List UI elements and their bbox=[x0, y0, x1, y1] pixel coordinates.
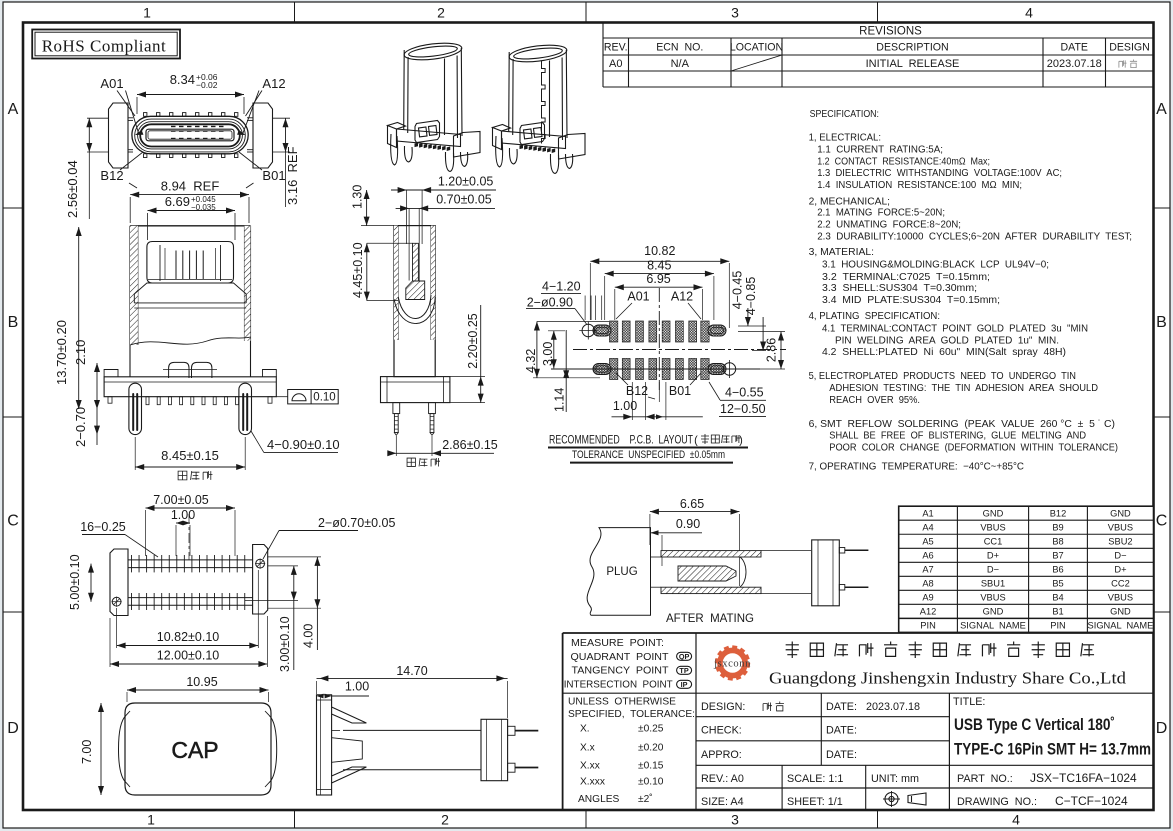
svg-text:1.00: 1.00 bbox=[171, 508, 195, 522]
svg-text:GND: GND bbox=[1110, 508, 1131, 518]
svg-text:REV.: A0: REV.: A0 bbox=[701, 773, 744, 785]
svg-text:CC2: CC2 bbox=[1111, 579, 1130, 589]
svg-text:B6: B6 bbox=[1052, 565, 1063, 575]
svg-text:16−0.25: 16−0.25 bbox=[80, 520, 126, 534]
svg-text:2: 2 bbox=[437, 5, 445, 21]
svg-text:4.00: 4.00 bbox=[302, 624, 316, 648]
svg-text:±2˚: ±2˚ bbox=[638, 793, 653, 805]
svg-text:A1: A1 bbox=[922, 508, 933, 518]
svg-text:3.00±0.10: 3.00±0.10 bbox=[278, 616, 292, 672]
svg-text:10.82±0.10: 10.82±0.10 bbox=[157, 630, 220, 644]
svg-text:2.56±0.04: 2.56±0.04 bbox=[65, 160, 80, 218]
svg-text:5.00±0.10: 5.00±0.10 bbox=[68, 554, 82, 610]
svg-text:AFTER MATING: AFTER MATING bbox=[666, 613, 754, 625]
svg-text:SIGNAL NAME: SIGNAL NAME bbox=[1088, 621, 1154, 631]
svg-text:X.xxx: X.xxx bbox=[580, 777, 605, 788]
svg-text:±0.25: ±0.25 bbox=[638, 724, 664, 735]
svg-text:B4: B4 bbox=[1052, 593, 1063, 603]
svg-text:JSX−TC16FA−1024: JSX−TC16FA−1024 bbox=[1030, 771, 1137, 785]
svg-text:ADHESION TESTING: THE TIN: ADHESION TESTING: THE TIN ADHESION AREA … bbox=[829, 383, 1098, 394]
svg-text:4−0.90±0.10: 4−0.90±0.10 bbox=[267, 437, 340, 452]
svg-text:N/A: N/A bbox=[671, 58, 690, 70]
svg-text:4, PLATING SPECIFICATION:: 4, PLATING SPECIFICATION: bbox=[809, 311, 940, 322]
svg-text:−0.02: −0.02 bbox=[196, 80, 218, 90]
svg-text:1.3 DIELECTRIC WITHSTANDING: 1.3 DIELECTRIC WITHSTANDING VOLTAGE:100V… bbox=[817, 168, 1062, 179]
svg-text:TOLERANCE UNSPECIFIED ±0.05m: TOLERANCE UNSPECIFIED ±0.05mm bbox=[572, 449, 725, 461]
svg-text:4.1 TERMINAL:CONTACT POINT: 4.1 TERMINAL:CONTACT POINT GOLD PLATED 3… bbox=[822, 324, 1088, 335]
svg-text:8.94 REF: 8.94 REF bbox=[161, 179, 220, 194]
svg-text:1.14: 1.14 bbox=[553, 388, 567, 412]
svg-text:2.20±0.25: 2.20±0.25 bbox=[466, 313, 480, 369]
svg-text:B8: B8 bbox=[1052, 536, 1063, 546]
svg-text:A01: A01 bbox=[627, 290, 649, 304]
svg-text:IP: IP bbox=[681, 680, 688, 689]
svg-text:CHECK:: CHECK: bbox=[701, 725, 742, 737]
svg-text:SHEET: 1/1: SHEET: 1/1 bbox=[787, 796, 843, 808]
svg-text:SPECIFICATION:: SPECIFICATION: bbox=[810, 109, 879, 120]
svg-text:SIGNAL NAME: SIGNAL NAME bbox=[960, 621, 1026, 631]
svg-text:USB Type C Vertical 180˚: USB Type C Vertical 180˚ bbox=[954, 716, 1115, 734]
svg-text:2.86: 2.86 bbox=[765, 338, 779, 362]
svg-text:0.10: 0.10 bbox=[313, 392, 335, 404]
svg-text:10.95: 10.95 bbox=[186, 675, 217, 689]
svg-text:3.4 MID PLATE:SUS304 T=0.15: 3.4 MID PLATE:SUS304 T=0.15mm; bbox=[822, 295, 1000, 306]
svg-text:B12: B12 bbox=[1050, 508, 1067, 518]
svg-text:1.2 CONTACT RESISTANCE:40mΩ: 1.2 CONTACT RESISTANCE:40mΩ Max; bbox=[817, 156, 990, 167]
svg-text:UNIT: mm: UNIT: mm bbox=[871, 773, 919, 785]
svg-text:12−0.50: 12−0.50 bbox=[720, 402, 766, 416]
svg-text:B1: B1 bbox=[1052, 607, 1063, 617]
svg-text:X.x: X.x bbox=[580, 743, 595, 754]
svg-text:1, ELECTRICAL:: 1, ELECTRICAL: bbox=[809, 133, 881, 144]
svg-text:3.16 REF: 3.16 REF bbox=[285, 146, 300, 205]
svg-text:VBUS: VBUS bbox=[980, 522, 1005, 532]
svg-text:SHALL BE FREE OF BLISTERIN: SHALL BE FREE OF BLISTERING, GLUE MELTIN… bbox=[829, 431, 1086, 442]
svg-text:B01: B01 bbox=[262, 168, 285, 183]
svg-text:A: A bbox=[8, 101, 19, 118]
svg-text:B5: B5 bbox=[1052, 579, 1063, 589]
svg-text:DRAWING NO.:: DRAWING NO.: bbox=[957, 796, 1037, 808]
svg-text:X.xx: X.xx bbox=[580, 761, 600, 772]
svg-text:14.70: 14.70 bbox=[396, 664, 427, 678]
svg-text:LOCATION: LOCATION bbox=[730, 42, 783, 54]
svg-text:RECOMMENDED P.C.B. LAYOUT: RECOMMENDED P.C.B. LAYOUT bbox=[549, 432, 693, 446]
svg-text:4.45±0.10: 4.45±0.10 bbox=[351, 242, 365, 298]
svg-text:2−ø0.70±0.05: 2−ø0.70±0.05 bbox=[318, 516, 395, 530]
svg-text:): ) bbox=[739, 434, 743, 446]
svg-text:B: B bbox=[8, 314, 19, 331]
svg-text:INITIAL RELEASE: INITIAL RELEASE bbox=[866, 58, 960, 70]
svg-text:RoHS Compliant: RoHS Compliant bbox=[42, 36, 167, 55]
svg-text:1.00: 1.00 bbox=[613, 399, 637, 413]
svg-text:1.00: 1.00 bbox=[345, 680, 369, 694]
svg-text:A9: A9 bbox=[922, 593, 933, 603]
svg-text:TYPE-C 16Pin SMT H= 13.7mm: TYPE-C 16Pin SMT H= 13.7mm bbox=[954, 740, 1151, 758]
svg-text:A12: A12 bbox=[671, 290, 693, 304]
svg-text:A7: A7 bbox=[922, 565, 933, 575]
svg-text:DATE:: DATE: bbox=[826, 749, 857, 761]
svg-text:C: C bbox=[7, 513, 19, 530]
svg-text:2023.07.18: 2023.07.18 bbox=[1047, 58, 1102, 70]
svg-text:CAP: CAP bbox=[171, 737, 218, 763]
svg-text:2: 2 bbox=[441, 812, 449, 828]
svg-text:SCALE: 1:1: SCALE: 1:1 bbox=[787, 773, 843, 785]
svg-text:(: ( bbox=[694, 434, 698, 446]
svg-text:A6: A6 bbox=[922, 550, 933, 560]
svg-text:APPRO:: APPRO: bbox=[701, 749, 742, 761]
svg-text:4−0.45: 4−0.45 bbox=[731, 271, 745, 310]
svg-text:1: 1 bbox=[143, 5, 151, 21]
svg-text:A8: A8 bbox=[922, 579, 933, 589]
svg-text:1.4 INSULATION RESISTANCE:10: 1.4 INSULATION RESISTANCE:100 MΩ MIN; bbox=[817, 180, 1022, 191]
svg-text:C−TCF−1024: C−TCF−1024 bbox=[1055, 794, 1128, 808]
svg-text:±0.20: ±0.20 bbox=[638, 743, 664, 754]
svg-text:A: A bbox=[1156, 101, 1167, 118]
svg-text:PIN: PIN bbox=[1050, 621, 1066, 631]
svg-text:SPECIFIED, TOLERANCE:: SPECIFIED, TOLERANCE: bbox=[568, 709, 695, 720]
svg-text:4−0.85: 4−0.85 bbox=[744, 277, 758, 316]
svg-text:D−: D− bbox=[1114, 550, 1126, 560]
svg-text:DESCRIPTION: DESCRIPTION bbox=[876, 42, 948, 54]
svg-text:B9: B9 bbox=[1052, 522, 1063, 532]
svg-text:B12: B12 bbox=[100, 168, 123, 183]
svg-text:B12: B12 bbox=[626, 384, 648, 398]
svg-text:2, MECHANICAL;: 2, MECHANICAL; bbox=[809, 196, 890, 207]
svg-text:D+: D+ bbox=[987, 550, 999, 560]
svg-text:B7: B7 bbox=[1052, 550, 1063, 560]
svg-text:CC1: CC1 bbox=[984, 536, 1003, 546]
svg-text:DESIGN: DESIGN bbox=[1109, 42, 1150, 54]
svg-text:1.20±0.05: 1.20±0.05 bbox=[438, 175, 494, 189]
svg-text:1: 1 bbox=[147, 812, 155, 828]
svg-text:QP: QP bbox=[679, 652, 690, 661]
svg-text:4: 4 bbox=[1012, 812, 1020, 828]
svg-text:GND: GND bbox=[1110, 607, 1131, 617]
svg-text:3.1 HOUSING&MOLDING:BLACK LC: 3.1 HOUSING&MOLDING:BLACK LCP UL94V−0; bbox=[822, 260, 1049, 271]
svg-text:PLUG: PLUG bbox=[606, 566, 637, 578]
svg-text:3.3 SHELL:SUS304 T=0.30mm;: 3.3 SHELL:SUS304 T=0.30mm; bbox=[822, 283, 977, 294]
svg-text:Guangdong Jinshengxin Industry: Guangdong Jinshengxin Industry Share Co.… bbox=[769, 669, 1127, 688]
svg-text:DATE: 2023.07.18: DATE: 2023.07.18 bbox=[826, 701, 920, 713]
svg-text:TITLE:: TITLE: bbox=[953, 696, 985, 708]
svg-text:3.2 TERMINAL:C7025 T=0.15mm;: 3.2 TERMINAL:C7025 T=0.15mm; bbox=[822, 272, 990, 283]
svg-text:PIN WELDING AREA GOLD PLAT: PIN WELDING AREA GOLD PLATED 1u" MIN. bbox=[835, 335, 1059, 346]
svg-text:2−0.70: 2−0.70 bbox=[73, 407, 88, 447]
svg-text:A12: A12 bbox=[920, 607, 937, 617]
svg-text:GND: GND bbox=[983, 607, 1004, 617]
svg-text:QUADRANT POINT: QUADRANT POINT bbox=[571, 652, 669, 663]
svg-text:3: 3 bbox=[731, 812, 739, 828]
svg-text:2.2 UNMATING FORCE:8~20N;: 2.2 UNMATING FORCE:8~20N; bbox=[817, 220, 961, 231]
svg-text:10.82: 10.82 bbox=[644, 244, 675, 258]
svg-text:A5: A5 bbox=[922, 536, 933, 546]
svg-text:ANGLES: ANGLES bbox=[578, 794, 620, 805]
svg-text:VBUS: VBUS bbox=[980, 593, 1005, 603]
svg-text:8.45±0.15: 8.45±0.15 bbox=[161, 448, 219, 463]
svg-text:MEASURE POINT:: MEASURE POINT: bbox=[571, 638, 664, 649]
svg-text:POOR COLOR CHANGE (DEFORMAT: POOR COLOR CHANGE (DEFORMATION WITHIN TO… bbox=[829, 443, 1118, 454]
svg-text:C: C bbox=[1156, 513, 1168, 530]
svg-text:D+: D+ bbox=[1114, 565, 1126, 575]
svg-text:1.30: 1.30 bbox=[351, 185, 365, 209]
svg-text:12.00±0.10: 12.00±0.10 bbox=[157, 649, 220, 663]
svg-text:B01: B01 bbox=[669, 384, 691, 398]
svg-text:4.2 SHELL:PLATED Ni 60u" M: 4.2 SHELL:PLATED Ni 60u" MIN(Salt spray … bbox=[822, 347, 1066, 358]
svg-text:REV.: REV. bbox=[604, 42, 628, 54]
svg-text:3, MATERIAL:: 3, MATERIAL: bbox=[809, 247, 874, 258]
svg-text:6.65: 6.65 bbox=[680, 497, 704, 511]
svg-text:SBU2: SBU2 bbox=[1108, 536, 1132, 546]
svg-text:±0.15: ±0.15 bbox=[638, 761, 664, 772]
svg-text:5, ELECTROPLATED PRODUCTS NE: 5, ELECTROPLATED PRODUCTS NEED TO UNDERG… bbox=[809, 371, 1076, 382]
svg-text:A4: A4 bbox=[922, 522, 933, 532]
svg-text:7.00: 7.00 bbox=[80, 740, 94, 764]
svg-text:3: 3 bbox=[731, 5, 739, 21]
svg-text:REVISIONS: REVISIONS bbox=[859, 26, 922, 38]
svg-text:DATE: DATE bbox=[1061, 42, 1088, 54]
svg-text:A0: A0 bbox=[609, 58, 622, 70]
svg-text:SIZE: A4: SIZE: A4 bbox=[701, 796, 744, 808]
svg-text:A01: A01 bbox=[100, 76, 123, 91]
svg-text:A12: A12 bbox=[262, 76, 285, 91]
svg-text:DATE:: DATE: bbox=[826, 725, 857, 737]
svg-text:13.70±0.20: 13.70±0.20 bbox=[54, 320, 69, 385]
svg-text:2.10: 2.10 bbox=[73, 340, 88, 365]
svg-text:2.1 MATING FORCE:5~20N;: 2.1 MATING FORCE:5~20N; bbox=[817, 208, 945, 219]
svg-text:UNLESS OTHERWISE: UNLESS OTHERWISE bbox=[568, 697, 676, 708]
svg-text:2.86±0.15: 2.86±0.15 bbox=[442, 438, 498, 452]
svg-text:6.95: 6.95 bbox=[646, 272, 670, 286]
svg-text:0.70±0.05: 0.70±0.05 bbox=[436, 193, 492, 207]
svg-text:REACH OVER 95%.: REACH OVER 95%. bbox=[829, 395, 920, 406]
svg-text:2.3 DURABILITY:10000 CYCLES;: 2.3 DURABILITY:10000 CYCLES;6~20N AFTER … bbox=[817, 231, 1132, 242]
svg-text:DESIGN:: DESIGN: bbox=[701, 701, 745, 713]
svg-text:PIN: PIN bbox=[920, 621, 936, 631]
svg-text:TANGENCY POINT: TANGENCY POINT bbox=[572, 666, 669, 677]
svg-text:D: D bbox=[1156, 720, 1168, 737]
svg-text:7, OPERATING TEMPERATURE: −4: 7, OPERATING TEMPERATURE: −40°C~+85°C bbox=[809, 462, 1024, 473]
svg-text:VBUS: VBUS bbox=[1108, 593, 1133, 603]
svg-text:6.69: 6.69 bbox=[165, 194, 190, 209]
svg-text:D−: D− bbox=[987, 565, 999, 575]
svg-text:SBU1: SBU1 bbox=[981, 579, 1005, 589]
svg-text:ECN NO.: ECN NO. bbox=[656, 42, 703, 54]
svg-text:4−1.20: 4−1.20 bbox=[542, 280, 581, 294]
svg-text:INTERSECTION POINT: INTERSECTION POINT bbox=[564, 679, 673, 690]
svg-text:B: B bbox=[1156, 314, 1167, 331]
svg-text:X.: X. bbox=[580, 724, 590, 735]
svg-text:1.1 CURRENT RATING:5A;: 1.1 CURRENT RATING:5A; bbox=[817, 145, 943, 156]
svg-text:6, SMT REFLOW SOLDERING (PE: 6, SMT REFLOW SOLDERING (PEAK VALUE 260 … bbox=[809, 419, 1115, 430]
svg-text:±0.10: ±0.10 bbox=[638, 777, 664, 788]
svg-text:TP: TP bbox=[679, 666, 688, 675]
svg-text:7.00±0.05: 7.00±0.05 bbox=[153, 493, 209, 507]
svg-text:GND: GND bbox=[983, 508, 1004, 518]
svg-text:0.90: 0.90 bbox=[676, 517, 700, 531]
svg-text:D: D bbox=[7, 720, 19, 737]
svg-text:4: 4 bbox=[1025, 5, 1033, 21]
svg-text:jsxconn: jsxconn bbox=[713, 659, 751, 670]
svg-text:8.45: 8.45 bbox=[647, 259, 671, 273]
svg-text:4−0.55: 4−0.55 bbox=[725, 386, 764, 400]
svg-text:PART NO.:: PART NO.: bbox=[957, 773, 1013, 785]
svg-text:8.34: 8.34 bbox=[170, 72, 195, 87]
svg-text:2−ø0.90: 2−ø0.90 bbox=[527, 295, 573, 309]
svg-text:VBUS: VBUS bbox=[1108, 522, 1133, 532]
